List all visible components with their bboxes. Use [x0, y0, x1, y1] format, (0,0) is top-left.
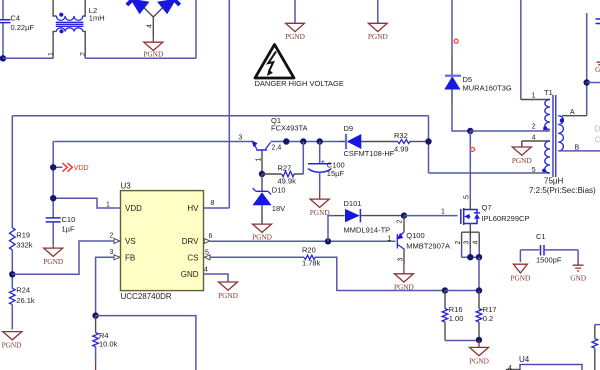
svg-text:1: 1: [441, 209, 445, 216]
svg-text:MURA160T3G: MURA160T3G: [463, 84, 512, 93]
svg-text:VS: VS: [125, 237, 136, 246]
svg-text:1: 1: [48, 52, 55, 56]
svg-text:D9: D9: [344, 124, 354, 133]
svg-text:R32: R32: [394, 131, 408, 140]
svg-text:4: 4: [532, 135, 536, 142]
svg-text:VDD: VDD: [125, 204, 142, 213]
bias winding: [545, 141, 550, 173]
resistor R16: [442, 291, 463, 341]
svg-text:1: 1: [106, 202, 110, 209]
svg-text:5: 5: [532, 167, 536, 174]
svg-text:2: 2: [110, 233, 114, 240]
svg-text:A: A: [570, 109, 575, 116]
svg-text:2: 2: [455, 241, 462, 245]
junction switch node: [467, 128, 473, 134]
ground PGND (D10): [252, 224, 272, 241]
pin 4 lead: [522, 141, 550, 147]
capacitor C1: [520, 232, 578, 265]
pin CS input arrow: [204, 255, 210, 260]
svg-text:1: 1: [256, 158, 263, 162]
wire FB node across to secondary feedback: [96, 316, 196, 370]
ground PGND (sense): [469, 340, 489, 366]
wire to PGND stub (top, x=378): [377, 0, 379, 23]
svg-text:1µF: 1µF: [62, 225, 75, 234]
svg-text:R16: R16: [449, 305, 463, 314]
resistor R19: [10, 228, 33, 250]
svg-text:4: 4: [508, 365, 512, 370]
svg-text:U4: U4: [519, 355, 530, 364]
svg-text:R27: R27: [278, 163, 292, 172]
svg-text:PGND: PGND: [368, 32, 388, 41]
svg-text:R17: R17: [483, 305, 497, 314]
svg-text:GND: GND: [570, 274, 586, 283]
svg-text:PGND: PGND: [143, 50, 163, 59]
svg-text:T1: T1: [544, 88, 553, 97]
wire bias node down: [428, 116, 430, 173]
svg-text:3: 3: [464, 241, 471, 245]
transistor Q7 IPL60R299CP mosfet: [461, 195, 530, 232]
svg-text:PGND: PGND: [512, 156, 532, 165]
resistor R20: [302, 245, 321, 267]
svg-text:D10: D10: [272, 185, 286, 194]
ground PGND (bridge negative): [143, 35, 163, 59]
junction C4 bottom: [0, 55, 6, 61]
svg-text:FB: FB: [125, 253, 135, 262]
wire CS pin to R20: [210, 256, 304, 258]
svg-text:UCC28740DR: UCC28740DR: [121, 292, 172, 301]
wire secondary to right edge: [587, 82, 600, 84]
svg-text:PGND: PGND: [310, 208, 330, 217]
svg-text:IPL60R299CP: IPL60R299CP: [482, 214, 530, 223]
pin VS input arrow: [114, 239, 120, 244]
wire to PGND stub (top, x=295): [294, 0, 296, 23]
svg-text:C: C: [595, 136, 600, 145]
svg-text:0.2: 0.2: [483, 314, 493, 323]
svg-text:PGND: PGND: [285, 32, 305, 41]
junction bias rectifier node: [425, 138, 431, 144]
svg-text:R19: R19: [16, 231, 30, 240]
svg-text:DANGER HIGH VOLTAGE: DANGER HIGH VOLTAGE: [255, 79, 344, 88]
wire Q1 collector rail: [271, 141, 340, 143]
junction collector c: [317, 138, 323, 144]
pin FB input arrow: [114, 255, 120, 260]
wire VDD node to U3 VDD pin: [53, 198, 120, 208]
svg-text:R20: R20: [302, 245, 316, 254]
resistor R27: [262, 142, 303, 186]
svg-text:U3: U3: [121, 182, 132, 191]
svg-text:332k: 332k: [16, 241, 33, 250]
transistor Q1 FCX493TA: [239, 116, 308, 174]
svg-text:10.0k: 10.0k: [99, 340, 118, 349]
svg-text:3: 3: [397, 258, 404, 262]
svg-text:1: 1: [387, 236, 391, 243]
svg-text:18V: 18V: [272, 204, 285, 213]
capacitor C10: [46, 215, 76, 246]
junction sense left: [442, 287, 448, 293]
svg-text:4: 4: [204, 267, 208, 274]
svg-text:GND: GND: [181, 270, 199, 279]
transistor Q100 MMBT2907A: [387, 216, 450, 265]
wire FB riser: [96, 257, 114, 315]
wire R19 to junction: [11, 250, 13, 288]
core: [553, 95, 556, 177]
svg-text:VDD: VDD: [74, 165, 89, 172]
capacitor (cut off, top right): [596, 19, 600, 24]
svg-text:R24: R24: [16, 286, 30, 295]
svg-text:2: 2: [397, 220, 404, 224]
diode D9 CSFMT108-HF: [339, 124, 395, 158]
wire D9 to R32: [365, 141, 398, 143]
no-ERC marker (drain): [471, 147, 475, 151]
wire L2 pin 2 to right corner: [85, 57, 196, 59]
svg-text:26.1k: 26.1k: [16, 296, 35, 305]
wire long bias rail horizontal: [12, 115, 428, 117]
svg-text:PGND: PGND: [469, 357, 489, 366]
wire HV pin to bulk rail: [204, 207, 230, 209]
svg-text:0.22µF: 0.22µF: [11, 23, 35, 32]
junction source a: [467, 254, 473, 260]
junction gate node: [401, 212, 407, 218]
svg-text:49.9k: 49.9k: [278, 176, 297, 185]
wire R20 to sense node: [315, 257, 445, 290]
ground GND earth (C1): [570, 263, 586, 283]
svg-text:D101: D101: [344, 199, 362, 208]
svg-text:PGND: PGND: [218, 291, 238, 300]
svg-text:C10: C10: [62, 215, 76, 224]
capacitor C4: [0, 14, 34, 59]
svg-text:FCX493TA: FCX493TA: [271, 124, 308, 133]
op-amp U3 UCC28740DR controller: [106, 182, 215, 302]
resistor R17: [476, 291, 496, 340]
danger high voltage warning symbol: [255, 45, 344, 89]
junction collector a: [283, 138, 289, 144]
wire Q1 emitter rail: [53, 141, 252, 143]
wire source to sense node: [478, 257, 480, 290]
wire sense node across: [445, 290, 479, 292]
wire bottom left to L2 pin 1: [3, 57, 53, 59]
junction source b: [476, 254, 482, 260]
svg-text:1mH: 1mH: [89, 14, 105, 23]
diode D10 zener 18V: [253, 174, 286, 224]
ground PGND (C100): [310, 191, 330, 217]
wire R24 to ground: [11, 305, 13, 330]
ground GND (cut off, top right): [595, 62, 600, 74]
svg-text:7:2:5(Pri:Sec:Bias): 7:2:5(Pri:Sec:Bias): [529, 186, 596, 195]
svg-text:1: 1: [532, 93, 536, 100]
svg-text:HV: HV: [187, 204, 199, 213]
svg-text:C1: C1: [536, 232, 546, 241]
svg-text:4: 4: [147, 24, 154, 28]
wire HV bulk rail vertical: [228, 0, 230, 208]
svg-text:Q7: Q7: [482, 203, 492, 212]
op-amp U4 (cut off bottom right): [506, 355, 582, 370]
svg-text:C4: C4: [11, 14, 21, 23]
junction VDD flag: [50, 164, 56, 170]
wire C4 top: [2, 0, 4, 19]
resistor R4: [93, 316, 118, 370]
svg-text:+: +: [321, 157, 326, 166]
Q7 source pin group box pins 2 3 4: [455, 232, 480, 257]
svg-text:MMDL914-TP: MMDL914-TP: [344, 226, 391, 235]
svg-text:1.00: 1.00: [449, 314, 464, 323]
svg-text:MMBT2907A: MMBT2907A: [406, 242, 450, 251]
wire drain column: [469, 131, 471, 204]
svg-text:5: 5: [463, 195, 470, 199]
svg-text:3: 3: [110, 249, 114, 256]
wire bias winding to node: [429, 172, 550, 174]
wire DRV to Q100 base: [210, 240, 396, 242]
ground PGND (U3 GND pin): [218, 282, 238, 300]
svg-text:PGND: PGND: [43, 257, 63, 266]
svg-text:6: 6: [209, 233, 213, 240]
resistor R24: [10, 286, 35, 306]
wire D101 cathode to gate node: [401, 215, 405, 217]
ground PGND (R24): [2, 332, 22, 350]
transformer T1: [521, 0, 600, 195]
resistor (cut off right edge): [592, 325, 600, 370]
junction collector b: [300, 138, 306, 144]
svg-text:3: 3: [239, 135, 243, 142]
ground PGND (C10): [43, 246, 63, 266]
bridge rectifier diodes (partially cut at top): [126, 0, 182, 35]
primary winding: [545, 100, 550, 130]
pin 2 lead: [543, 129, 550, 131]
wire VS sense to U3: [12, 241, 114, 274]
svg-text:2,4: 2,4: [272, 145, 282, 152]
svg-text:CSFMT108-HF: CSFMT108-HF: [344, 149, 395, 158]
svg-text:8: 8: [211, 200, 215, 207]
svg-text:2: 2: [80, 52, 87, 56]
svg-text:15µF: 15µF: [327, 169, 345, 178]
ground PGND (top right): [368, 23, 388, 41]
junction VS divider: [9, 271, 15, 277]
svg-text:PGND: PGND: [252, 233, 272, 242]
svg-text:D: D: [595, 125, 600, 134]
svg-text:1500pF: 1500pF: [536, 256, 562, 265]
wire R16 bottom to R17 bottom: [445, 340, 479, 342]
wire D5 to switch node: [452, 106, 470, 131]
junction FB divider: [92, 312, 98, 318]
svg-text:2: 2: [532, 124, 536, 131]
junction secondary: [584, 79, 590, 85]
junction C10 tap: [50, 195, 56, 201]
svg-text:PGND: PGND: [510, 274, 530, 283]
no-ERC marker (D5 anode): [454, 39, 458, 43]
pin DRV output arrow: [204, 239, 210, 244]
secondary winding: [562, 115, 587, 117]
svg-text:4: 4: [473, 241, 480, 245]
svg-text:Q100: Q100: [406, 231, 424, 240]
junction sense right: [476, 287, 482, 293]
wire left border down to R19: [11, 116, 13, 228]
svg-text:75µH: 75µH: [544, 177, 564, 186]
junction Q1 base node: [259, 171, 265, 177]
resistor R32: [394, 131, 429, 154]
svg-text:1.78k: 1.78k: [302, 258, 321, 267]
ground PGND (T1 pin 4): [512, 147, 532, 165]
junction D101 anode tap: [325, 238, 331, 244]
wire VDD drop: [52, 142, 54, 218]
svg-text:4.99: 4.99: [394, 145, 409, 154]
inductor L2 (common mode choke): [48, 0, 105, 58]
wire switch node to T1 pin 2: [470, 130, 549, 132]
power flag VDD: [53, 163, 88, 172]
diode D101 MMDL914-TP: [344, 199, 401, 235]
pin 1 lead: [520, 0, 522, 100]
capacitor C100: [308, 142, 345, 192]
svg-text:PGND: PGND: [2, 341, 22, 350]
junction sense ground: [476, 337, 482, 343]
svg-text:CS: CS: [187, 253, 198, 262]
wire secondary A riser: [586, 13, 588, 116]
diode D5 MURA160T3G: [444, 0, 512, 106]
svg-text:G: G: [595, 65, 600, 74]
ground PGND (Q100 collector): [394, 265, 414, 292]
wire right border of input loop: [195, 0, 197, 58]
wire D101 anode riser: [328, 216, 334, 242]
svg-text:DRV: DRV: [182, 237, 199, 246]
wire gate node to Q7 gate: [404, 215, 458, 217]
ground PGND (C1): [510, 264, 530, 282]
wire GND pin to ground: [204, 274, 229, 282]
ground PGND (top middle): [285, 23, 305, 41]
